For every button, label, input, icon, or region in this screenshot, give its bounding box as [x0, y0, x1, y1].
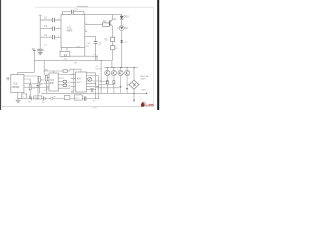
svg-text:SW: SW: [34, 98, 37, 100]
arrow N lead: [133, 89, 135, 102]
junction nodes: [95, 98, 96, 99]
LED D1: [120, 15, 129, 19]
svg-text:4017: 4017: [77, 82, 83, 84]
base wires: [96, 82, 120, 88]
ground below C4: [38, 51, 43, 55]
capacitor C4: [32, 45, 48, 53]
wire down to rail: [96, 56, 98, 60]
wire to pin 3: [40, 36, 61, 38]
svg-text:+9V: +9V: [31, 49, 35, 51]
wire R1 to Q1 base: [109, 23, 111, 25]
connector J1: [21, 94, 26, 99]
wire B1 to node: [70, 55, 97, 57]
resistor R3: [29, 79, 36, 99]
IC2 box: [11, 75, 24, 93]
diode D4: [119, 76, 121, 94]
svg-text:LM: LM: [44, 90, 47, 92]
capacitor C5: [85, 36, 102, 60]
capacitor C10: [84, 96, 86, 100]
svg-text:40k: 40k: [64, 58, 67, 60]
ground symbol: [16, 99, 21, 103]
IC3 box: [49, 73, 58, 91]
trimmer: [88, 77, 92, 81]
wire pin4 to R1: [85, 24, 103, 26]
transducer B1 box: [60, 48, 70, 61]
battery BT1: [42, 96, 45, 104]
IC3 top rail: [44, 61, 63, 76]
rail feed to opto rail: [111, 61, 113, 68]
svg-text:VR: VR: [115, 48, 118, 50]
resistor R8: [106, 76, 108, 94]
triac T4: [125, 67, 130, 76]
IC4 left pins: [71, 74, 76, 86]
relay RL1 box: [74, 95, 82, 100]
caption smudge: [93, 107, 97, 108]
svg-text:IC3: IC3: [50, 79, 54, 82]
supply rail: [34, 60, 112, 62]
resistor R4: [38, 77, 45, 94]
transistor Q1: [110, 18, 117, 26]
wire to pin 2: [40, 28, 61, 30]
resistor R5: [45, 76, 47, 94]
triac T1: [105, 67, 110, 76]
svg-text:BR1 1A: BR1 1A: [141, 75, 149, 78]
frame right border: [152, 7, 154, 106]
top rail from IC1: [85, 15, 122, 16]
IC4 box: [76, 72, 87, 92]
capacitor C1: [52, 18, 54, 22]
bridge top feed: [133, 67, 135, 80]
ground arrow small: [71, 90, 73, 92]
diode D3: [91, 89, 94, 92]
frame bottom border: [2, 105, 154, 107]
IC2 output pins: [24, 76, 38, 79]
svg-text:LM386: LM386: [12, 86, 20, 89]
LED D2: [117, 25, 129, 30]
resistor R2: [105, 26, 115, 45]
page left dark edge: [0, 0, 1, 110]
capacitor C2: [52, 26, 54, 30]
capacitor C6 electrolytic: [36, 76, 41, 99]
arrow L lead: [146, 92, 148, 94]
triac T2: [111, 67, 116, 76]
input bus wire: [39, 15, 41, 49]
resistor R9: [113, 76, 115, 94]
svg-text:BC547: BC547: [96, 69, 103, 71]
IC2 supply wire: [18, 61, 35, 75]
resistor R7 on rail: [63, 69, 70, 72]
svg-text:230V: 230V: [141, 89, 147, 91]
frame top border: [35, 6, 153, 8]
switch S3: [51, 96, 56, 100]
vertical drops right of IC4: [96, 61, 101, 99]
power return wire: [18, 93, 22, 99]
IC3 left pin stubs: [47, 75, 50, 90]
wire D1 to D2: [121, 19, 123, 25]
svg-text:400V: 400V: [141, 78, 147, 80]
IC3 right pin wires: [58, 75, 74, 89]
fuse F1: [64, 95, 70, 99]
logo mark: [141, 102, 146, 107]
bridge BR1: [129, 80, 139, 89]
wires IC2 to IC3: [24, 84, 49, 88]
IC4 right pins: [87, 73, 102, 90]
diode D5: [126, 76, 129, 94]
svg-text:1n: 1n: [43, 50, 45, 52]
wire D2 down to opto rail: [121, 31, 123, 68]
connector ticks: [30, 96, 32, 101]
Q1 collector wire: [112, 15, 114, 20]
wire x73.8 vertical: [73, 69, 75, 93]
preset VR1: [111, 46, 119, 61]
capacitor C7: [63, 80, 71, 87]
capacitor X1 over IC1: [63, 10, 85, 15]
switch S2 box: [34, 96, 42, 100]
IC4 top feed: [70, 69, 81, 72]
bottom rail: [41, 92, 146, 94]
power row wire: [27, 98, 99, 100]
resistor R1: [103, 23, 110, 26]
IC2 input cap: [6, 77, 11, 80]
page right dark edge: [157, 0, 159, 110]
IC1 U1 box: [61, 15, 85, 48]
pin 5 stub: [85, 31, 87, 33]
opto supply rail: [104, 66, 137, 68]
triac T3: [118, 67, 123, 76]
capacitor C3: [52, 35, 54, 39]
wire to pin 1: [40, 19, 61, 21]
node junction: [96, 56, 97, 57]
svg-text:4093: 4093: [67, 29, 73, 33]
diode D6: [120, 40, 128, 44]
svg-text:IC4: IC4: [77, 78, 81, 81]
pin 10 stub down: [84, 48, 86, 57]
battery +9V terminal: [31, 49, 36, 61]
